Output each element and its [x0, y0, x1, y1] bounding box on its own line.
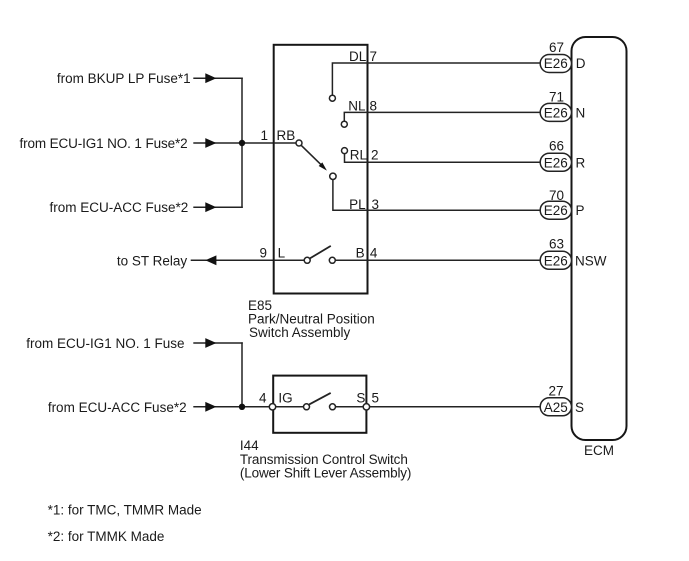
svg-text:IG: IG	[278, 391, 292, 406]
svg-text:N: N	[576, 105, 586, 120]
svg-text:L: L	[278, 246, 286, 261]
wire right contact to pin 4 B	[335, 259, 367, 261]
svg-text:from BKUP LP Fuse*1: from BKUP LP Fuse*1	[57, 71, 191, 86]
svg-text:E26: E26	[544, 155, 568, 170]
wire ECU-IG1 NO.1 Fuse to bus	[193, 342, 243, 344]
TCS switch left contact	[304, 404, 310, 410]
svg-text:*2: for TMMK Made: *2: for TMMK Made	[48, 529, 165, 544]
svg-text:E26: E26	[544, 253, 568, 268]
connector E26 pin 66	[540, 153, 571, 171]
svg-text:I44: I44	[240, 438, 259, 453]
svg-text:8: 8	[370, 99, 378, 114]
wire pin 8 to ECM N	[368, 111, 541, 113]
wire ECU-ACC Fuse*2 to bus	[193, 206, 243, 208]
svg-text:to ST Relay: to ST Relay	[117, 253, 188, 268]
arrow ECU-ACC lower feed	[205, 402, 216, 412]
svg-text:E26: E26	[544, 56, 568, 71]
svg-text:70: 70	[549, 188, 564, 203]
wire ECU-ACC Fuse*2 to pin 4 IG	[193, 406, 272, 408]
svg-text:from ECU-IG1 NO. 1 Fuse: from ECU-IG1 NO. 1 Fuse	[26, 336, 184, 351]
svg-text:27: 27	[548, 383, 563, 398]
svg-text:PL: PL	[349, 197, 366, 212]
bus upper vertical	[241, 78, 243, 208]
arrow to ST Relay	[205, 255, 216, 265]
wire pin 9 L to switch contact	[274, 259, 305, 261]
svg-text:S: S	[575, 400, 584, 415]
svg-text:E26: E26	[544, 105, 568, 120]
arrow ECU-IG1 feed	[205, 338, 216, 348]
svg-text:from ECU-ACC Fuse*2: from ECU-ACC Fuse*2	[50, 200, 189, 215]
svg-text:S: S	[356, 391, 365, 406]
svg-text:RL: RL	[350, 148, 368, 163]
NSW switch lever	[310, 246, 331, 259]
svg-text:1: 1	[260, 128, 268, 143]
svg-text:NL: NL	[348, 99, 366, 114]
contact NL	[341, 121, 347, 127]
svg-text:71: 71	[549, 89, 564, 104]
connector box E85	[274, 45, 368, 294]
svg-text:7: 7	[370, 49, 378, 64]
wire pin 2 to ECM R	[368, 161, 541, 163]
junction upper bus to pin 1	[239, 140, 245, 146]
wire pin1 RB to common contact	[274, 142, 296, 144]
NSW switch right contact	[329, 257, 335, 263]
svg-text:67: 67	[549, 40, 564, 55]
wire contact RL to pin 2	[345, 154, 368, 163]
connector E26 pin 70	[540, 201, 571, 219]
arrow ECU-ACC feed	[205, 202, 216, 212]
svg-text:from ECU-ACC Fuse*2: from ECU-ACC Fuse*2	[48, 400, 187, 415]
svg-text:E26: E26	[544, 203, 568, 218]
wire pin 9 to ST Relay	[191, 259, 274, 261]
svg-text:63: 63	[549, 237, 564, 252]
pin 4 IG terminal	[269, 404, 275, 410]
connector E26 pin 63	[540, 251, 571, 269]
arrow ECU-IG1 NO.1 feed	[205, 138, 216, 148]
wire pin 8 NL to contact	[344, 112, 367, 121]
svg-text:5: 5	[372, 391, 380, 406]
connector box I44	[273, 376, 366, 433]
svg-text:2: 2	[371, 148, 379, 163]
svg-text:R: R	[576, 155, 586, 170]
wire moving contact to pin 3 PL	[333, 180, 368, 211]
wire switch to pin 5 S and ECM	[336, 406, 541, 408]
selector arrowhead	[319, 162, 327, 170]
wire pin 3 to ECM P	[368, 209, 541, 211]
svg-text:4: 4	[259, 391, 267, 406]
svg-text:Switch Assembly: Switch Assembly	[249, 325, 351, 340]
connector A25 pin 27	[540, 398, 571, 416]
ECM body	[572, 37, 627, 440]
svg-text:A25: A25	[544, 400, 568, 415]
wire BKUP LP Fuse to bus	[193, 77, 243, 79]
svg-text:ECM: ECM	[584, 443, 614, 458]
svg-text:RB: RB	[277, 128, 296, 143]
connector E26 pin 71	[540, 103, 571, 121]
pin 5 S terminal	[363, 404, 369, 410]
selector arrow shaft	[301, 145, 321, 165]
wire ECU-IG1 NO.1 Fuse*2 to pin 1	[193, 142, 273, 144]
TCS switch lever	[309, 393, 331, 405]
contact common RB	[296, 140, 302, 146]
svg-text:4: 4	[370, 246, 378, 261]
svg-text:P: P	[576, 203, 585, 218]
junction lower bus to pin 4 IG	[239, 404, 245, 410]
svg-text:from ECU-IG1 NO. 1 Fuse*2: from ECU-IG1 NO. 1 Fuse*2	[19, 136, 187, 151]
svg-text:(Lower Shift Lever Assembly): (Lower Shift Lever Assembly)	[240, 466, 411, 481]
svg-text:D: D	[576, 56, 586, 71]
NSW switch left contact	[304, 257, 310, 263]
svg-text:B: B	[356, 246, 365, 261]
svg-text:NSW: NSW	[575, 253, 607, 268]
TCS switch right contact	[330, 404, 336, 410]
wire pin 7 to ECM D	[368, 62, 541, 64]
svg-text:9: 9	[259, 246, 267, 261]
arrow BKUP LP feed	[205, 73, 216, 83]
connector E26 pin 67	[540, 55, 571, 73]
wire IG pin to switch	[276, 406, 304, 408]
bus lower vertical	[241, 342, 243, 407]
contact moving PL	[330, 173, 336, 179]
wire pin 7 DL to contact	[332, 63, 367, 95]
svg-text:66: 66	[549, 138, 564, 153]
svg-text:DL: DL	[349, 49, 367, 64]
contact DL	[329, 95, 335, 101]
contact RL	[342, 148, 348, 154]
svg-text:*1: for TMC, TMMR Made: *1: for TMC, TMMR Made	[48, 502, 202, 517]
wire pin 4 to ECM NSW	[368, 259, 541, 261]
